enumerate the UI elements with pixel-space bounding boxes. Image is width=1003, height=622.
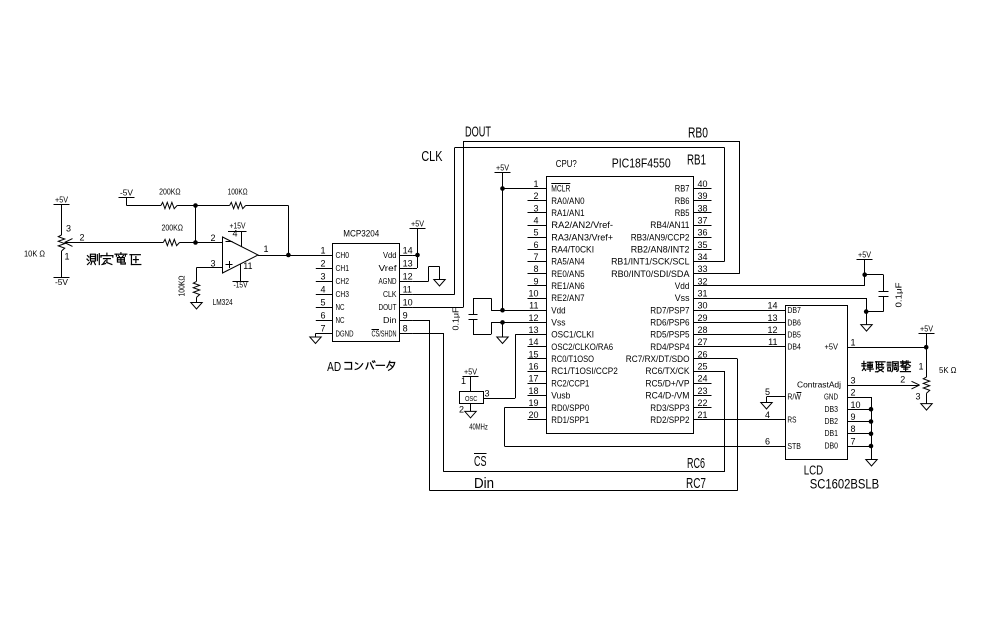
svg-text:5: 5 <box>320 298 325 308</box>
ADC U2 MCP3204 body <box>333 229 400 342</box>
MCP3204 pin 11 CLK <box>383 284 413 299</box>
svg-text:10: 10 <box>528 289 538 299</box>
op-amp U1 LM324 triangle <box>223 237 259 273</box>
PIC pin 33 RB0/INT0/SDI/SDA <box>611 264 711 280</box>
svg-text:32: 32 <box>698 276 708 286</box>
svg-text:DB5: DB5 <box>787 330 801 340</box>
LCD pin 8 DB1 <box>825 424 856 438</box>
svg-text:31: 31 <box>698 289 708 299</box>
svg-text:8: 8 <box>533 264 538 274</box>
MCP3204 pin 7 DGND <box>316 324 354 339</box>
PIC pin 36 RB3/AN9/CCP2 <box>631 228 712 244</box>
svg-text:RD6/PSP6: RD6/PSP6 <box>650 318 689 329</box>
PIC pin 26 RC7/RX/DT/SDO <box>626 349 712 365</box>
svg-text:24: 24 <box>698 374 708 384</box>
svg-text:RD3/SPP3: RD3/SPP3 <box>650 403 689 414</box>
MCP3204 pin 1 CH0 <box>320 245 349 260</box>
svg-text:1: 1 <box>851 338 856 348</box>
wire GND/DB3-DB0 chain to ground <box>848 397 874 460</box>
svg-text:Din: Din <box>383 315 397 325</box>
svg-text:6: 6 <box>765 437 770 447</box>
svg-text:STB: STB <box>787 441 801 451</box>
svg-text:RC7: RC7 <box>686 475 706 492</box>
svg-text:Vdd: Vdd <box>551 305 565 316</box>
svg-text:RD2/SPP2: RD2/SPP2 <box>650 415 689 426</box>
label LM324 <box>213 297 233 307</box>
MCP3204 pin 3 CH2 <box>316 271 349 286</box>
svg-text:RB7: RB7 <box>675 184 690 195</box>
svg-text:RB5: RB5 <box>675 208 690 219</box>
wire DOUT net: MCP pin10 to PIC RB0 <box>413 141 740 308</box>
svg-text:15: 15 <box>528 349 538 359</box>
svg-text:5K Ω: 5K Ω <box>939 365 957 375</box>
svg-text:OSC: OSC <box>465 394 478 403</box>
svg-text:10: 10 <box>851 400 861 410</box>
wire +5V to potentiometer pin 3 <box>61 205 63 236</box>
svg-text:+5V: +5V <box>496 163 509 173</box>
svg-text:RC6: RC6 <box>687 455 705 472</box>
PIC pin 9 RE1/AN6 <box>528 276 585 292</box>
net label CLK <box>421 148 442 165</box>
svg-text:14: 14 <box>403 245 413 255</box>
wire Vss pin31 <box>712 298 869 314</box>
PIC pin 24 RC5/D+/VP <box>645 374 711 390</box>
svg-text:PIC18F4550: PIC18F4550 <box>612 156 671 171</box>
MCP3204 pin 13 Vref <box>379 258 413 273</box>
label LCD <box>804 464 824 478</box>
PIC pin 21 RD2/SPP2 <box>650 410 711 426</box>
potentiometer VR1 10K ohm with wiper arrow <box>58 224 84 262</box>
svg-text:29: 29 <box>698 313 708 323</box>
svg-text:2: 2 <box>459 405 464 415</box>
PIC pin 40 RB7 <box>675 179 712 195</box>
svg-text:Vusb: Vusb <box>551 391 570 402</box>
PIC pin 7 RA5/AN4 <box>528 252 585 268</box>
wire LCD +5V pin1 <box>848 347 926 349</box>
label PIC18F4550 <box>612 156 671 171</box>
svg-text:DB1: DB1 <box>825 428 839 438</box>
svg-text:21: 21 <box>698 410 708 420</box>
wire AGND pin 12 to ground <box>413 267 440 282</box>
svg-text:1: 1 <box>533 179 538 189</box>
wire -5V to R3 <box>127 198 161 206</box>
svg-text:9: 9 <box>403 311 408 321</box>
svg-text:Vdd: Vdd <box>383 250 397 260</box>
svg-text:DB0: DB0 <box>825 441 839 451</box>
svg-text:2: 2 <box>851 388 856 398</box>
svg-text:CS: CS <box>474 453 487 470</box>
+5V supply symbol LCD Vdd <box>857 250 873 260</box>
PIC pin 12 Vss <box>528 313 566 329</box>
wire junction vertical (feedback node) <box>195 206 197 243</box>
svg-text:RD7/PSP7: RD7/PSP7 <box>650 305 689 316</box>
wire +5V to PIC Vdd pin32 <box>712 260 868 286</box>
wire Din net: MCP pin9 to PIC RC7 <box>413 320 738 491</box>
svg-text:RA1/AN1: RA1/AN1 <box>551 208 584 219</box>
svg-text:36: 36 <box>698 228 708 238</box>
svg-text:NC: NC <box>336 315 345 325</box>
label kido chousei (brightness adjust) <box>862 361 911 372</box>
svg-text:CH2: CH2 <box>336 276 350 286</box>
wire CLK net: MCP pin11 to PIC RB1 <box>413 148 725 295</box>
label CPU? <box>556 158 577 170</box>
PIC pin 20 RD1/SPP1 <box>528 410 590 426</box>
svg-text:Din: Din <box>474 475 494 492</box>
PIC pin 39 RB6 <box>675 191 712 207</box>
svg-text:DB3: DB3 <box>825 404 839 414</box>
node: feedback junction <box>193 203 198 208</box>
LCD pin 14 DB7 <box>767 301 801 316</box>
PIC pin 6 RA4/T0CKI <box>528 240 595 256</box>
svg-text:RC6/TX/CK: RC6/TX/CK <box>645 366 690 377</box>
MCP3204 pin 9 Din <box>383 311 413 326</box>
svg-text:20: 20 <box>528 410 538 420</box>
net label RC7 <box>686 475 706 492</box>
svg-text:8: 8 <box>851 424 856 434</box>
svg-text:10K Ω: 10K Ω <box>24 249 45 259</box>
svg-text:4: 4 <box>533 216 538 226</box>
wire op-amp output to MCP3204 CH0 <box>258 255 332 257</box>
svg-text:4: 4 <box>765 410 770 420</box>
wire +5V to pin14/pin13 <box>413 229 418 269</box>
svg-text:DOUT: DOUT <box>465 124 491 141</box>
svg-text:7: 7 <box>320 324 325 334</box>
MCP3204 pin 4 CH3 <box>316 284 349 299</box>
svg-text:RC7/RX/DT/SDO: RC7/RX/DT/SDO <box>626 354 690 365</box>
svg-text:37: 37 <box>698 216 708 226</box>
svg-text:+5V: +5V <box>858 250 871 260</box>
svg-text:DB6: DB6 <box>787 317 801 327</box>
wire R2 to op-amp inverting input <box>180 242 223 244</box>
microcontroller U3 PIC18F4550 body <box>547 177 694 434</box>
svg-text:RB2/AN8/INT2: RB2/AN8/INT2 <box>631 245 690 256</box>
svg-text:13: 13 <box>528 325 538 335</box>
resistor R3 200K (offset) <box>159 187 181 209</box>
svg-text:SC1602BSLB: SC1602BSLB <box>810 477 880 492</box>
LCD pin 11 DB4 <box>768 337 801 352</box>
PIC pin 2 RA0/AN0 <box>528 191 585 207</box>
svg-text:RC5/D+/VP: RC5/D+/VP <box>645 378 689 389</box>
PIC pin 14 OSC2/CLKO/RA6 <box>528 337 614 353</box>
svg-text:RA4/T0CKI: RA4/T0CKI <box>551 245 594 256</box>
wire ContrastAdj pin3 to potentiometer wiper (arrow) <box>848 375 920 389</box>
net label CS (overline) <box>474 453 487 470</box>
svg-text:4: 4 <box>320 284 325 294</box>
svg-text:-5V: -5V <box>55 277 68 287</box>
wire MCLR pin1 <box>500 186 527 191</box>
ground DGND <box>310 337 321 344</box>
PIC pin 25 RC6/TX/CK <box>645 362 711 378</box>
wires PIC RD7-RD4 to LCD DB7-DB4 <box>712 311 786 347</box>
svg-text:11: 11 <box>403 284 412 294</box>
wire R/W to ground <box>767 397 786 403</box>
value label 40MHz <box>469 422 488 432</box>
svg-text:3: 3 <box>320 271 325 281</box>
LCD pin 5 R/W <box>765 387 801 402</box>
svg-text:26: 26 <box>698 349 708 359</box>
PIC pin 34 RB1/INT1/SCK/SCL <box>611 252 711 268</box>
svg-text:GND: GND <box>824 392 838 402</box>
svg-text:CLK: CLK <box>421 148 442 165</box>
op-amp pin labels 2,3,1 <box>211 233 269 269</box>
PIC pin 32 Vdd <box>675 276 712 292</box>
svg-text:0.1μF: 0.1μF <box>452 307 461 330</box>
label SC1602BSLB <box>810 477 880 492</box>
value label 0.1uF (C1) <box>452 307 461 330</box>
svg-text:33: 33 <box>698 264 708 274</box>
svg-text:AGND: AGND <box>379 276 397 286</box>
PIC pin 3 RA1/AN1 <box>528 203 585 219</box>
svg-text:2: 2 <box>80 233 85 243</box>
svg-text:RD1/SPP1: RD1/SPP1 <box>551 415 589 426</box>
-15V supply symbol op-amp pin 11 <box>233 261 253 290</box>
svg-text:CLK: CLK <box>383 289 397 299</box>
+5V supply symbol oscillator <box>463 367 479 377</box>
wire wiper to R2 <box>65 242 164 244</box>
svg-text:2: 2 <box>533 191 538 201</box>
svg-text:RA3/AN3/Vref+: RA3/AN3/Vref+ <box>551 232 613 243</box>
svg-text:RE0/AN5: RE0/AN5 <box>551 269 584 280</box>
svg-text:18: 18 <box>528 386 538 396</box>
svg-text:12: 12 <box>767 325 777 335</box>
LCD pin 9 DB2 <box>825 412 856 426</box>
oscillator module X1 <box>459 376 490 415</box>
PIC pin 31 Vss <box>675 289 712 305</box>
svg-text:DB7: DB7 <box>787 305 801 315</box>
resistor R4 100K (feedback) <box>228 187 248 209</box>
svg-text:1: 1 <box>65 252 70 262</box>
MCP3204 pin 5 NC <box>316 298 345 313</box>
net label DOUT <box>465 124 491 141</box>
capacitor C2 0.1uF (LCD decoupling) <box>865 275 889 312</box>
PIC pin 17 RC2/CCP1 <box>528 374 590 390</box>
svg-text:1: 1 <box>320 245 325 255</box>
node: op-amp output junction <box>286 253 291 258</box>
svg-text:Vdd: Vdd <box>675 281 690 292</box>
value label 0.1uF (C2) <box>894 283 904 308</box>
+5V supply symbol (potentiometer top) <box>54 195 70 205</box>
svg-text:Vss: Vss <box>551 318 565 329</box>
MCP3204 pin 12 AGND <box>379 271 413 286</box>
svg-text:13: 13 <box>767 313 777 323</box>
svg-text:RC1/T1OSI/CCP2: RC1/T1OSI/CCP2 <box>551 366 618 377</box>
svg-text:6: 6 <box>320 311 325 321</box>
PIC pin 8 RE0/AN5 <box>528 264 585 280</box>
PIC pin 5 RA3/AN3/Vref+ <box>528 228 614 244</box>
LCD pin 6 STB <box>765 437 801 452</box>
value label 10K ohm <box>24 249 45 259</box>
svg-text:30: 30 <box>698 301 708 311</box>
PIC pin 30 RD7/PSP7 <box>650 301 711 317</box>
node: inverting input junction <box>193 240 198 245</box>
wire feedback resistor to output node <box>246 206 289 256</box>
wire potentiometer pin 1 to -5V <box>61 251 63 278</box>
svg-text:9: 9 <box>533 276 538 286</box>
svg-text:AD: AD <box>327 360 341 374</box>
PIC pin 27 RD4/PSP4 <box>650 337 711 353</box>
MCP3204 pin 14 Vdd <box>383 245 413 260</box>
svg-text:CPU?: CPU? <box>556 158 577 170</box>
ground contrast pot <box>921 404 932 411</box>
svg-text:1: 1 <box>461 376 466 386</box>
PIC pin 29 RD6/PSP6 <box>650 313 711 329</box>
label sokutei denatsu (measured voltage) <box>87 253 141 265</box>
svg-text:RB1: RB1 <box>687 152 706 169</box>
resistor R5 100K (to ground) <box>178 275 200 297</box>
net label RB0 <box>688 125 708 142</box>
wire OSC pin3 to PIC OSC1 <box>483 335 527 399</box>
MCP3204 pin 6 NC <box>316 311 345 326</box>
svg-text:RC4/D-/VM: RC4/D-/VM <box>645 391 689 402</box>
wire +5V to pot pin1 <box>924 334 929 378</box>
svg-text:RE2/AN7: RE2/AN7 <box>551 293 584 304</box>
wire R3 to feedback node <box>177 205 230 207</box>
value label 5K ohm <box>939 365 957 375</box>
wire Vss pin12 <box>491 320 527 325</box>
svg-text:+5V: +5V <box>920 324 933 334</box>
svg-text:34: 34 <box>698 252 708 262</box>
svg-text:14: 14 <box>528 337 538 347</box>
PIC pin 1 MCLR <box>528 179 571 195</box>
svg-text:200KΩ: 200KΩ <box>159 187 181 197</box>
wire OSC pin2 to ground <box>470 404 472 412</box>
svg-text:38: 38 <box>698 203 708 213</box>
PIC pin 10 RE2/AN7 <box>528 289 585 305</box>
svg-text:DGND: DGND <box>336 328 354 338</box>
svg-text:13: 13 <box>403 258 413 268</box>
svg-text:+5V: +5V <box>825 342 839 352</box>
LCD pin 2 GND <box>824 388 856 402</box>
LCD pin 12 DB5 <box>767 325 801 340</box>
LCD module U4 body <box>786 306 848 460</box>
wire Vdd pin11 <box>491 308 527 313</box>
ground below R5 <box>191 297 202 309</box>
svg-text:3: 3 <box>915 392 920 402</box>
label AD converter <box>327 360 395 374</box>
svg-text:CH3: CH3 <box>336 289 350 299</box>
-5V supply symbol (offset input) <box>119 188 135 198</box>
+5V supply symbol PIC MCLR/Vdd <box>495 163 511 173</box>
svg-text:5: 5 <box>533 228 538 238</box>
PIC pin 28 RD5/PSP5 <box>650 325 711 341</box>
svg-text:200KΩ: 200KΩ <box>162 223 184 233</box>
svg-text:12: 12 <box>403 271 413 281</box>
ground AGND <box>434 280 445 287</box>
svg-text:27: 27 <box>698 337 708 347</box>
svg-text:DB4: DB4 <box>787 342 801 352</box>
svg-text:+5V: +5V <box>464 367 477 377</box>
PIC pin 22 RD3/SPP3 <box>650 398 711 414</box>
wire RS net: PIC RD2 pin21 to LCD RS <box>712 419 786 421</box>
PIC pin 19 RD0/SPP0 <box>528 398 590 414</box>
svg-text:MCP3204: MCP3204 <box>343 229 379 240</box>
svg-text:11: 11 <box>529 301 538 311</box>
svg-text:RA0/AN0: RA0/AN0 <box>551 196 584 207</box>
wire +5V to OSC pin1 <box>470 377 472 392</box>
svg-text:1: 1 <box>918 362 923 372</box>
svg-text:14: 14 <box>767 301 777 311</box>
ground PIC Vss <box>497 322 508 343</box>
MCP3204 pin 2 CH1 <box>316 258 349 273</box>
svg-text:DOUT: DOUT <box>379 302 397 312</box>
svg-text:-15V: -15V <box>234 280 248 290</box>
net label Din <box>474 475 494 492</box>
svg-text:3: 3 <box>851 376 856 386</box>
net label RB1 <box>687 152 706 169</box>
potentiometer VR2 5K ohm <box>915 362 929 402</box>
svg-text:RD0/SPP0: RD0/SPP0 <box>551 403 589 414</box>
svg-text:RB6: RB6 <box>675 196 690 207</box>
svg-text:LM324: LM324 <box>213 297 233 307</box>
PIC pin 11 Vdd <box>528 301 566 317</box>
+5V supply symbol contrast pot <box>919 324 935 334</box>
svg-text:RB4/AN11: RB4/AN11 <box>650 220 689 231</box>
svg-text:100KΩ: 100KΩ <box>178 275 187 296</box>
svg-text:7: 7 <box>533 252 538 262</box>
svg-text:MCLR: MCLR <box>551 184 570 195</box>
wire +5V rail down to Vdd <box>502 173 504 311</box>
svg-text:23: 23 <box>698 386 708 396</box>
svg-text:DB2: DB2 <box>825 416 839 426</box>
resistor R2 200K (input) <box>162 223 184 246</box>
svg-text:28: 28 <box>698 325 708 335</box>
-5V supply symbol (potentiometer bottom) <box>54 277 70 287</box>
svg-text:2: 2 <box>320 258 325 268</box>
svg-text:3: 3 <box>66 224 71 234</box>
ground LCD GND <box>866 460 877 467</box>
wire pot pin3 to ground <box>926 393 928 403</box>
svg-text:22: 22 <box>698 398 708 408</box>
svg-text:+5V: +5V <box>55 195 68 205</box>
svg-text:RE1/AN6: RE1/AN6 <box>551 281 584 292</box>
svg-text:RD5/PSP5: RD5/PSP5 <box>650 330 689 341</box>
svg-text:35: 35 <box>698 240 708 250</box>
LCD pin 13 DB6 <box>767 313 801 328</box>
svg-text:0.1μF: 0.1μF <box>894 283 904 308</box>
PIC pin 35 RB2/AN8/INT2 <box>631 240 712 256</box>
svg-text:25: 25 <box>698 362 708 372</box>
+5V supply symbol MCP3204 Vdd/Vref <box>410 219 426 229</box>
svg-text:NC: NC <box>336 302 345 312</box>
LCD pin 7 DB0 <box>825 437 856 451</box>
LCD pin 10 DB3 <box>825 400 861 414</box>
svg-text:CH1: CH1 <box>336 263 350 273</box>
svg-text:17: 17 <box>528 374 538 384</box>
PIC pin 13 OSC1/CLKI <box>528 325 595 341</box>
svg-text:11: 11 <box>768 337 777 347</box>
node: MCP Vdd junction <box>415 253 420 258</box>
LCD pin 1 +5V <box>825 338 856 352</box>
svg-text:RS: RS <box>787 415 796 425</box>
svg-text:2: 2 <box>211 233 216 243</box>
ground oscillator <box>465 411 476 418</box>
svg-text:RB0/INT0/SDI/SDA: RB0/INT0/SDI/SDA <box>611 269 690 280</box>
svg-text:3: 3 <box>485 389 490 399</box>
svg-text:40MHz: 40MHz <box>469 422 488 432</box>
capacitor C1 0.1uF (PIC decoupling) <box>469 298 492 334</box>
svg-text:OSC2/CLKO/RA6: OSC2/CLKO/RA6 <box>551 342 613 353</box>
svg-text:OSC1/CLKI: OSC1/CLKI <box>551 330 594 341</box>
svg-text:8: 8 <box>403 324 408 334</box>
svg-text:RB1/INT1/SCK/SCL: RB1/INT1/SCK/SCL <box>611 257 689 268</box>
svg-text:+5V: +5V <box>411 219 424 229</box>
PIC pin 4 RA2/AN2/Vref- <box>528 216 614 232</box>
ground C2/Vss <box>861 312 872 332</box>
svg-text:9: 9 <box>851 412 856 422</box>
svg-text:3: 3 <box>533 203 538 213</box>
svg-text:6: 6 <box>533 240 538 250</box>
svg-text:Vss: Vss <box>675 293 690 304</box>
